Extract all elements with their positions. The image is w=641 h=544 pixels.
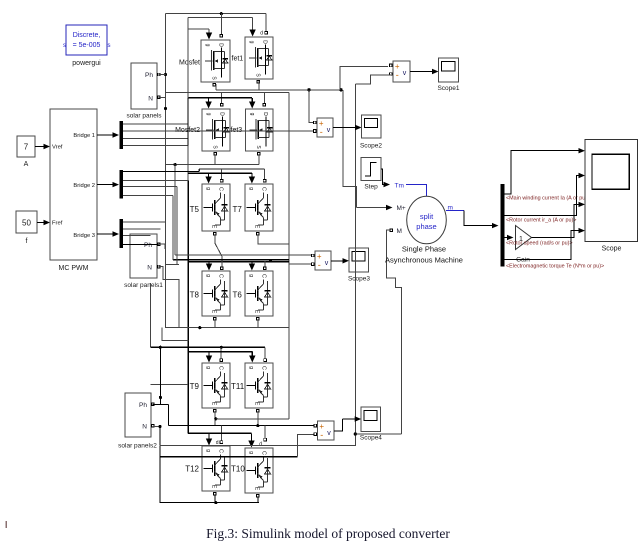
N2 stub	[153, 426, 160, 428]
svg-text:C: C	[261, 366, 267, 370]
igbt block T7	[245, 184, 273, 231]
svg-text:Discrete,: Discrete,	[73, 32, 101, 39]
junction N rail	[164, 107, 167, 110]
svg-text:Ph: Ph	[144, 242, 152, 249]
bus out4 wire	[505, 231, 579, 260]
bottom output rail y=502.6	[160, 502, 259, 504]
svg-text:T11: T11	[231, 382, 245, 391]
row2 S collector rail y=164.7	[166, 164, 260, 166]
wire Ph stub	[159, 74, 166, 76]
T9 m drop	[214, 412, 216, 426]
svg-text:g: g	[248, 451, 254, 454]
svg-text:C: C	[261, 451, 267, 455]
Tm wire blue	[406, 185, 426, 197]
wire V2 to Scope2	[333, 127, 357, 129]
svg-text:Bridge 3: Bridge 3	[73, 233, 95, 239]
voltage measurement V2	[317, 118, 333, 137]
svg-text:split: split	[420, 212, 434, 221]
gray link x=150.6	[150, 283, 152, 347]
demux1 line4	[123, 145, 188, 147]
svg-text:N: N	[148, 96, 153, 103]
stray mark	[5, 521, 7, 528]
svg-text:T8: T8	[190, 291, 200, 300]
svg-text:C: C	[218, 366, 224, 370]
svg-text:Scope3: Scope3	[348, 276, 370, 283]
igbt block T12	[202, 446, 230, 491]
demux2 bar	[120, 170, 124, 199]
T10 m drop	[257, 497, 259, 503]
junction M- link	[354, 432, 357, 435]
wire drop into Mosfet D	[220, 14, 222, 34]
phase vertical over Scope3	[354, 248, 356, 272]
svg-text:A: A	[24, 161, 29, 168]
svg-text:phase: phase	[416, 222, 436, 231]
svg-text:d: d	[259, 442, 262, 448]
V3+ rail y=255.2	[175, 254, 311, 256]
svg-text:-: -	[396, 70, 399, 80]
wire top D-rail y=13.6	[166, 13, 267, 15]
demux2 line4	[123, 195, 173, 197]
svg-text:M: M	[397, 228, 402, 235]
drop into T11 C	[264, 347, 266, 359]
T6 m drop	[257, 320, 259, 328]
junction T9 rail	[220, 346, 223, 349]
drop into T7 C	[264, 169, 266, 179]
solar panels1 Ph jog	[159, 244, 166, 248]
svg-text:g: g	[205, 274, 211, 277]
svg-text:f: f	[26, 238, 28, 245]
svg-text:powergui: powergui	[72, 60, 101, 67]
T12 m drop	[214, 495, 216, 503]
demux1 line2 to V2-	[123, 130, 313, 132]
arrow into T11 g	[251, 352, 253, 356]
svg-text:v: v	[403, 70, 407, 77]
bold rail y=456.6	[160, 456, 298, 458]
mosfet block Mosfet2	[202, 109, 230, 151]
svg-text:Fig.3: Simulink model of propo: Fig.3: Simulink model of proposed conver…	[206, 526, 450, 541]
svg-text:Ph: Ph	[145, 72, 153, 79]
svg-text:g: g	[249, 113, 255, 116]
arrow into T9 g	[208, 352, 210, 356]
scope Scope2	[362, 115, 381, 138]
svg-text:g: g	[206, 113, 212, 116]
svg-text:D: D	[219, 112, 225, 116]
arrow into T8 g	[208, 262, 210, 265]
svg-text:50: 50	[22, 219, 31, 228]
svg-text:g: g	[205, 366, 211, 369]
svg-text:g: g	[249, 41, 255, 44]
wire drop into fet3 D	[263, 92, 265, 103]
demux3 line2	[123, 228, 160, 230]
igbt block T10	[245, 448, 273, 493]
svg-text:fet1: fet1	[232, 56, 244, 63]
demux3 bar	[120, 219, 124, 248]
T5 m diagonal link	[215, 235, 222, 261]
svg-text:T9: T9	[190, 382, 200, 391]
scope Scope1	[439, 58, 459, 82]
MC PWM subsystem block	[50, 109, 97, 260]
svg-text:N: N	[147, 265, 152, 272]
svg-text:<Electromagnetic torque Te (N*: <Electromagnetic torque Te (N*m or pu)>	[506, 264, 604, 270]
V4- riser	[297, 434, 313, 456]
T8 row D-rail y=259.8	[173, 259, 289, 261]
riser demux2-4	[172, 196, 174, 260]
demux3 line4	[123, 244, 159, 246]
arrow into T7 g	[251, 173, 253, 177]
T8 row output rail y=327.7	[166, 327, 289, 329]
igbt block T11	[245, 363, 273, 408]
svg-text:Bridge 2: Bridge 2	[73, 183, 95, 189]
drop into T8 C	[221, 261, 223, 267]
solar panels1 block	[130, 234, 157, 278]
drop into T5 C	[221, 169, 223, 179]
arrow into T12 g	[208, 433, 210, 439]
junction Ph rail	[164, 73, 167, 76]
svg-text:M+: M+	[397, 205, 406, 212]
Mosfet S drop	[215, 84, 217, 90]
T5 row gate bus y=173.2	[188, 172, 252, 174]
arrow into T5 g	[208, 173, 210, 177]
series bus x=288.8	[288, 92, 290, 419]
series link y=418.8	[216, 418, 289, 420]
junction N2	[158, 425, 161, 428]
demux2 line3	[123, 186, 177, 188]
series riser to machine	[343, 90, 357, 208]
V2+ riser	[309, 90, 313, 123]
solar panels block	[131, 63, 157, 109]
demux3 line1	[123, 221, 165, 223]
N2 riser x=160	[159, 427, 161, 503]
svg-text:N: N	[142, 424, 147, 431]
T8 row stub y=264.6	[166, 264, 179, 266]
wire gate rail y=17.6	[188, 17, 253, 19]
drop into T12 C	[220, 426, 222, 441]
mosfet block Mosfet3 (fet3)	[246, 109, 274, 151]
svg-text:-: -	[320, 127, 323, 137]
gate riser bold x=188	[187, 18, 189, 98]
igbt block T8	[202, 271, 230, 316]
gate bus feeder	[162, 328, 189, 341]
junction row2 rail	[174, 163, 177, 166]
wire N stub	[159, 96, 166, 98]
junction V2 riser	[307, 88, 310, 91]
svg-text:D: D	[262, 40, 268, 44]
svg-text:T12: T12	[185, 465, 199, 474]
svg-text:<Main winding current Ia (A or: <Main winding current Ia (A or pu)>	[506, 196, 590, 202]
drop into T9 C	[220, 347, 222, 359]
demux1 bar	[120, 121, 124, 149]
junction on D-rail	[220, 12, 223, 15]
rail y=445.7	[160, 445, 356, 447]
junction Ph2 riser	[159, 396, 162, 399]
junction T9 m	[214, 417, 217, 420]
svg-text:Scope4: Scope4	[360, 435, 382, 442]
T7 m drop	[258, 235, 289, 244]
machine M- staircase	[390, 229, 393, 232]
wire arrow into Mosfet g	[208, 29, 210, 33]
powergui block	[66, 25, 107, 55]
wire gate rail y=29.2	[188, 28, 209, 30]
svg-text:C: C	[261, 274, 267, 278]
svg-text:s: s	[108, 43, 111, 49]
svg-text:T10: T10	[231, 465, 245, 474]
link rail y=384.5	[151, 384, 188, 386]
svg-text:-: -	[318, 260, 321, 270]
m output wire	[446, 210, 464, 212]
wire drop into Mosfet2 D	[221, 92, 223, 103]
wire V1 to Scope1	[410, 71, 433, 73]
svg-text:C: C	[261, 187, 267, 191]
bus out3 wire	[505, 237, 508, 239]
gate bus row2 y=97.8	[188, 97, 252, 99]
scope Scope3	[349, 248, 369, 272]
T8 m drop	[214, 320, 216, 328]
vertical Ph/N rail x=165.5	[165, 14, 167, 328]
svg-text:g: g	[205, 449, 211, 452]
phase vertical x=355.3	[354, 84, 356, 446]
V1+ wire	[340, 67, 388, 90]
svg-text:solar panels: solar panels	[126, 113, 162, 120]
junction T8 rail	[269, 259, 272, 262]
mosfet block Mosfet	[201, 40, 230, 82]
svg-text:Mosfet: Mosfet	[179, 60, 200, 67]
scope Scope4	[361, 407, 380, 431]
junction Ph2 rail	[159, 346, 162, 349]
solar panels1 N jog	[159, 267, 179, 328]
svg-text:g: g	[248, 187, 254, 190]
svg-text:D: D	[262, 112, 268, 116]
svg-text:g: g	[205, 187, 211, 190]
junction V1 riser	[339, 88, 342, 91]
svg-text:solar panels2: solar panels2	[118, 443, 157, 450]
voltage measurement V3	[315, 251, 331, 270]
svg-text:Vref: Vref	[52, 145, 63, 151]
svg-text:g: g	[248, 366, 254, 369]
svg-text:Scope2: Scope2	[360, 143, 382, 150]
svg-text:Asynchronous Machine: Asynchronous Machine	[385, 256, 463, 265]
svg-text:g: g	[205, 44, 211, 47]
igbt block T9	[202, 363, 230, 408]
svg-text:<Rotor speed (rad/s or pu)>: <Rotor speed (rad/s or pu)>	[506, 241, 573, 247]
wire D-rail row2 y=92.3	[166, 91, 289, 93]
svg-text:7: 7	[24, 143, 29, 152]
voltage measurement V4	[318, 421, 335, 440]
fet3 m drop	[258, 155, 260, 165]
Ph2 stub	[153, 403, 169, 405]
svg-text:Scope1: Scope1	[437, 85, 459, 92]
T8 row gate bus y=261.8	[188, 261, 289, 263]
wire arrow into fet1 g	[252, 18, 254, 31]
V1- feed	[355, 75, 391, 84]
V4+ rail y=425	[169, 425, 314, 427]
asynchronous machine block	[407, 196, 447, 244]
wire Bridge3 to demux3	[97, 233, 114, 235]
step block	[361, 158, 381, 181]
riser x=175.1 to V3+	[174, 165, 176, 256]
igbt block T5	[202, 184, 230, 231]
svg-text:C: C	[218, 449, 224, 453]
svg-text:Fref: Fref	[52, 221, 63, 227]
arrow into T10 g	[251, 433, 253, 441]
constant A=7 block	[17, 136, 35, 157]
machine M+ wire	[356, 207, 387, 209]
svg-text:T7: T7	[233, 205, 243, 214]
wire V4 to Scope4	[334, 419, 343, 431]
arrow into fet3 g	[251, 98, 253, 102]
wire Step to Tm	[381, 169, 384, 185]
wire Bridge1 to demux1	[97, 134, 114, 136]
bus selector bar	[501, 184, 505, 267]
svg-text:v: v	[325, 260, 329, 267]
svg-text:Tm: Tm	[395, 182, 404, 189]
svg-text:solar panels1: solar panels1	[124, 282, 163, 289]
gain triangle	[516, 226, 532, 250]
T12 row gate bus y=433.3	[188, 432, 252, 434]
Mosfet2 m drop	[214, 155, 216, 165]
demux2 line1	[123, 170, 199, 172]
bridge1 output rail y=89.8	[216, 89, 341, 91]
fet1 S drop	[258, 81, 260, 90]
demux1 line3	[123, 137, 188, 139]
svg-text:Single Phase: Single Phase	[402, 245, 446, 254]
demux3 line3	[123, 235, 151, 237]
junction bottom rail	[214, 501, 217, 504]
constant f=50 block	[16, 211, 37, 233]
T9 row gate bus y=351.6	[188, 351, 252, 353]
M- link to phase rail	[355, 433, 401, 435]
wire 50 to Fref	[37, 222, 46, 224]
bus out2 wire	[505, 176, 579, 216]
wire Bridge2 to demux2	[97, 184, 114, 186]
svg-text:<Rotor current ir_a (A or pu)>: <Rotor current ir_a (A or pu)>	[506, 218, 576, 224]
svg-text:T6: T6	[233, 291, 243, 300]
svg-text:C: C	[218, 274, 224, 278]
arrow into Mosfet2 g	[208, 98, 210, 102]
junction output rail	[198, 326, 201, 329]
drop into T6 C	[264, 261, 266, 267]
riser demux2-3	[176, 187, 178, 265]
mosfet block Mosfet1 (fet1)	[245, 37, 273, 79]
svg-text:Scope: Scope	[602, 246, 622, 253]
T11 m drop	[257, 412, 259, 426]
scope Scope (main)	[585, 140, 637, 242]
svg-text:v: v	[327, 127, 331, 134]
Ph2 riser x=160.4	[159, 347, 161, 404]
voltage measurement V1	[393, 61, 410, 82]
solar panels2 block	[125, 393, 151, 437]
svg-text:D: D	[218, 43, 224, 47]
svg-text:C: C	[218, 187, 224, 191]
wire V3 to Scope3	[331, 260, 344, 262]
svg-text:g: g	[248, 274, 254, 277]
svg-text:Step: Step	[364, 184, 378, 191]
svg-text:-: -	[320, 430, 323, 440]
drop into T10 C	[264, 426, 266, 439]
demux2 line2	[123, 180, 188, 182]
svg-text:Bridge 1: Bridge 1	[73, 133, 95, 139]
T9 row D-rail y=347.3	[151, 346, 265, 348]
V3- link	[289, 263, 312, 265]
svg-text:s: s	[63, 43, 66, 49]
junction T11 m	[256, 424, 259, 427]
arrow into T6 g	[251, 262, 253, 265]
wire drop into fet1 D	[265, 14, 267, 31]
svg-text:MC PWM: MC PWM	[59, 265, 89, 272]
gain out wire	[532, 204, 580, 237]
svg-text:= 5e-005: = 5e-005	[73, 42, 101, 49]
wire 7 to Vref	[35, 146, 46, 148]
igbt block T6	[245, 271, 273, 316]
demux1 line1	[123, 123, 188, 125]
svg-text:T5: T5	[190, 205, 200, 214]
svg-text:Ph: Ph	[139, 402, 147, 409]
T5 row D-rail y=168.8	[199, 168, 264, 170]
svg-text:d: d	[216, 440, 219, 446]
svg-text:v: v	[327, 430, 331, 437]
svg-text:d: d	[260, 31, 263, 37]
bus out1 wire	[505, 151, 579, 194]
